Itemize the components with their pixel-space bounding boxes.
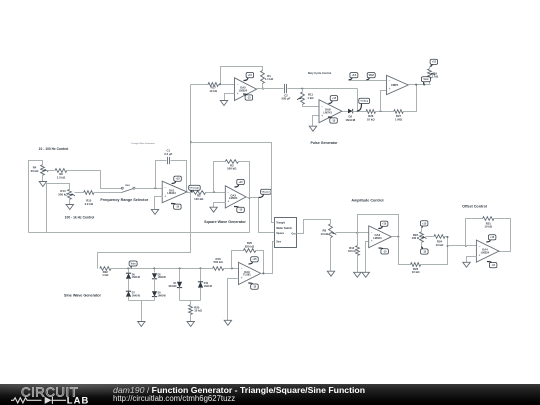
svg-text:Square Wave Generator: Square Wave Generator [204, 220, 246, 224]
svg-text:http://circuitlab.com/ctmh6g62: http://circuitlab.com/ctmh6g627tuzz [113, 394, 235, 403]
svg-text:1N4148: 1N4148 [158, 276, 167, 279]
svg-text:100 kΩ: 100 kΩ [194, 197, 204, 201]
svg-text:+0.5: +0.5 [352, 75, 357, 77]
svg-text:+15: +15 [175, 178, 180, 181]
svg-text:500 kΩ: 500 kΩ [227, 167, 237, 171]
svg-text:−: − [479, 245, 481, 249]
svg-text:−: − [228, 191, 230, 195]
svg-text:VTriangle: VTriangle [189, 188, 200, 190]
svg-text:SW1: SW1 [125, 185, 131, 187]
svg-text:100 Ω: 100 Ω [348, 249, 356, 253]
svg-text:Wafer Switch: Wafer Switch [276, 226, 292, 230]
svg-text:LM741: LM741 [324, 111, 333, 115]
svg-text:500 kΩ: 500 kΩ [58, 192, 68, 196]
svg-text:1 kΩ: 1 kΩ [307, 96, 314, 100]
svg-text:2.2 kΩ: 2.2 kΩ [85, 202, 94, 206]
svg-text:D10: D10 [204, 283, 209, 285]
svg-text:Vout: Vout [423, 78, 428, 81]
svg-text:1 kΩ: 1 kΩ [102, 273, 109, 277]
svg-text:Sine Wave Generator: Sine Wave Generator [64, 293, 102, 297]
svg-text:1N4148: 1N4148 [158, 294, 167, 297]
svg-text:LM324: LM324 [239, 89, 248, 93]
svg-text:1N4148: 1N4148 [132, 294, 141, 297]
svg-text:+15: +15 [490, 236, 495, 239]
svg-text:1.0 kΩ: 1.0 kΩ [57, 175, 66, 179]
svg-text:Frequency Range Selector: Frequency Range Selector [100, 198, 148, 202]
svg-text:820 kΩ: 820 kΩ [245, 244, 255, 248]
svg-text:VRef: VRef [369, 75, 374, 77]
svg-text:1 kΩ: 1 kΩ [432, 75, 439, 79]
svg-text:−: − [164, 186, 166, 190]
svg-text:10 kΩ: 10 kΩ [209, 89, 217, 93]
svg-text:+15: +15 [332, 97, 337, 100]
svg-text:Pulse Generator: Pulse Generator [310, 141, 338, 145]
svg-text:10 kΩ: 10 kΩ [194, 309, 202, 313]
svg-text:Sine: Sine [276, 242, 282, 244]
svg-text:−: − [371, 230, 373, 234]
svg-text:CMP1: CMP1 [391, 83, 399, 87]
svg-text:+15: +15 [252, 258, 257, 261]
svg-text:1N4148: 1N4148 [132, 276, 141, 279]
svg-text:10 kΩ: 10 kΩ [436, 243, 444, 247]
svg-text:Offset Control: Offset Control [462, 204, 487, 208]
svg-text:100 - 1k Hz Control: 100 - 1k Hz Control [65, 215, 95, 219]
svg-text:TL081: TL081 [243, 273, 251, 277]
svg-text:VtriAvg: VtriAvg [360, 100, 368, 103]
svg-text:Duty Cycle Control: Duty Cycle Control [308, 71, 332, 75]
svg-text:1 MΩ: 1 MΩ [395, 117, 403, 121]
svg-text:+15: +15 [248, 74, 253, 77]
svg-text:Out: Out [292, 232, 296, 235]
svg-text:1.1 kΩ: 1.1 kΩ [265, 77, 274, 81]
svg-text:10 kΩ: 10 kΩ [484, 225, 492, 229]
svg-text:100 Ω: 100 Ω [412, 236, 420, 240]
svg-text:10 kΩ: 10 kΩ [367, 117, 375, 121]
svg-text:Amplitude Control: Amplitude Control [351, 199, 383, 203]
svg-text:1N4148: 1N4148 [345, 118, 355, 122]
svg-text:10 - 100 Hz Control: 10 - 100 Hz Control [39, 147, 69, 151]
svg-text:10 kΩ: 10 kΩ [320, 232, 328, 236]
svg-text:+15: +15 [432, 61, 437, 64]
svg-text:−: − [321, 105, 323, 109]
svg-text:Square: Square [276, 233, 285, 235]
svg-text:−: − [241, 267, 243, 271]
svg-text:+15: +15 [382, 223, 387, 226]
svg-text:LM324: LM324 [373, 236, 382, 240]
svg-text:500 kΩ: 500 kΩ [213, 260, 223, 264]
svg-text:Vsin: Vsin [131, 263, 136, 265]
svg-text:LM324: LM324 [481, 250, 490, 254]
svg-text:1N4148: 1N4148 [204, 285, 213, 288]
svg-text:10 kΩ: 10 kΩ [412, 270, 420, 274]
svg-text:VSquare: VSquare [261, 192, 271, 194]
svg-text:+15: +15 [422, 222, 427, 225]
svg-text:−: − [237, 83, 239, 87]
svg-text:LM324: LM324 [167, 191, 176, 195]
svg-text:1N4148: 1N4148 [168, 285, 177, 288]
svg-text:Triangle Wave Generator: Triangle Wave Generator [131, 142, 155, 145]
svg-text:+15: +15 [238, 181, 243, 184]
svg-text:20 kΩ: 20 kΩ [31, 169, 39, 173]
svg-text:−: − [389, 79, 391, 83]
svg-text:LAB: LAB [67, 394, 90, 405]
svg-text:+: + [389, 87, 391, 91]
svg-text:Triangle: Triangle [276, 223, 286, 225]
svg-text:500 µF: 500 µF [282, 97, 291, 101]
svg-text:+: + [164, 194, 166, 198]
svg-text:2.2 µF: 2.2 µF [164, 152, 172, 156]
svg-text:LM324: LM324 [229, 196, 238, 200]
